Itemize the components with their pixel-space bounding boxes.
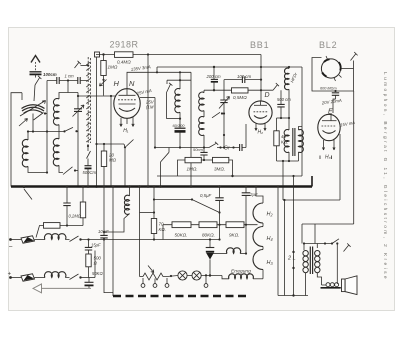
speaker cone bbox=[342, 276, 358, 295]
svg-text:2918R: 2918R bbox=[110, 40, 139, 50]
wire y224 bbox=[302, 223, 354, 225]
svg-text:9KΩ.: 9KΩ. bbox=[229, 232, 239, 237]
resistor 3M (row) bbox=[201, 157, 233, 177]
Erregung field coil bbox=[222, 269, 263, 279]
wire x340 (tube E right) bbox=[339, 134, 341, 200]
capacitor 10uF bbox=[98, 187, 113, 293]
svg-text:200 cm: 200 cm bbox=[206, 74, 222, 79]
capacitor 100cm (antenna series) bbox=[30, 72, 57, 78]
svg-text:Lumophon, Bergrat G 11, Gleich: Lumophon, Bergrat G 11, Gleichstrom, 2 K… bbox=[382, 72, 388, 281]
resistor 0,5M (grid leak D) bbox=[204, 88, 262, 100]
tube D pins / heater H2 bbox=[255, 123, 266, 136]
fuse plug (minus) bbox=[11, 236, 46, 243]
wire grid line y96 bbox=[78, 95, 116, 97]
svg-text:–: – bbox=[8, 245, 13, 251]
svg-text:BL2: BL2 bbox=[319, 40, 337, 50]
variable capacitor VC2 (trimmer) bbox=[73, 93, 85, 187]
switch row above transformer bbox=[303, 239, 339, 245]
fuse plug (plus) bbox=[11, 274, 46, 281]
variable capacitor VC3 bbox=[219, 80, 230, 149]
gang link (hatched band) bbox=[86, 57, 90, 144]
wire D cathode x246 bbox=[245, 124, 247, 148]
node wire y131 bbox=[28, 130, 64, 132]
wire y212.5 bbox=[140, 212, 155, 214]
switch (minus) bbox=[65, 236, 78, 242]
resistor 20M (vertical) bbox=[95, 143, 124, 187]
switch (band) bbox=[34, 113, 44, 121]
capacitor (Gr input) bbox=[240, 144, 242, 151]
svg-text:MΩ: MΩ bbox=[109, 158, 117, 163]
wire minus rail y239.5 bbox=[81, 239, 176, 241]
BL2 socket box bbox=[312, 58, 354, 93]
bus end riser x312 bbox=[311, 176, 313, 187]
resistor 40K (vertical) bbox=[274, 118, 289, 161]
svg-text:H₂: H₂ bbox=[258, 130, 264, 136]
svg-text:0,5μF: 0,5μF bbox=[200, 193, 212, 198]
coil L3 bbox=[53, 139, 63, 173]
svg-text:2 L: 2 L bbox=[287, 256, 296, 262]
terminal plus bbox=[9, 276, 12, 279]
svg-text:1 cm: 1 cm bbox=[65, 74, 75, 79]
wire x337 to voice coil bbox=[336, 244, 338, 285]
wire Gr row y147.5 bbox=[155, 147, 246, 149]
wire transformer bottom bracket bbox=[277, 160, 299, 162]
switch below bus (mains) bbox=[24, 189, 32, 200]
wire x292.5 (field feed) bbox=[293, 176, 295, 296]
transformer T1 (interstage) bbox=[284, 127, 303, 162]
svg-text:80KΩ.: 80KΩ. bbox=[202, 232, 215, 237]
wire grid leak x111 bbox=[110, 96, 112, 187]
tube V1 pins / heater H1 bbox=[120, 117, 134, 135]
svg-text:H₂: H₂ bbox=[267, 212, 274, 218]
wire screen x148 bbox=[147, 55, 149, 187]
svg-text:1MΩ: 1MΩ bbox=[108, 65, 118, 70]
svg-text:3MΩ.: 3MΩ. bbox=[214, 167, 225, 172]
resistor 1M (vertical) bbox=[100, 55, 118, 96]
coil L4 (anode coil) bbox=[175, 80, 180, 118]
wire x278 bbox=[277, 187, 279, 296]
capacitor 100cm (coupling) bbox=[224, 74, 262, 83]
switch (antenna) bbox=[35, 76, 41, 85]
tube D bbox=[249, 55, 272, 125]
svg-text:Gr: Gr bbox=[224, 146, 230, 152]
wire x113 bbox=[112, 187, 114, 297]
resistor 0,4M bbox=[115, 52, 134, 58]
wire y81 with capacitor 1cm bbox=[47, 74, 88, 93]
switch Gr bbox=[209, 142, 218, 148]
dial lamp 2 bbox=[187, 271, 222, 280]
svg-text:BB1: BB1 bbox=[250, 40, 269, 50]
bus (thick earth line) bbox=[11, 185, 312, 187]
switch (antenna selector) bbox=[75, 61, 81, 68]
tube V1 H N bbox=[114, 89, 140, 119]
svg-text:H₄: H₄ bbox=[267, 236, 273, 242]
wire vertical x47 bbox=[46, 81, 48, 173]
resistor 0,2M (vertical) bbox=[69, 187, 86, 226]
terminal minus bbox=[9, 238, 12, 241]
resistor 50K bbox=[172, 222, 191, 228]
switch (mid left) bbox=[124, 144, 125, 147]
wire x191 down bbox=[190, 72, 192, 186]
choke (minus lead) bbox=[45, 234, 66, 240]
svg-text:50cm: 50cm bbox=[193, 147, 203, 152]
arrow (mains return) bbox=[33, 284, 91, 293]
voice coil bbox=[321, 283, 342, 288]
capacitor 500cm (to chassis) bbox=[83, 144, 97, 187]
terminal circles bbox=[141, 277, 208, 287]
svg-text:Erregung: Erregung bbox=[231, 269, 251, 275]
svg-text:N: N bbox=[129, 79, 135, 88]
antenna A1 bbox=[31, 56, 40, 72]
wire left frame bbox=[11, 93, 22, 187]
wire x139.5 bbox=[139, 187, 141, 277]
anode load loop: wire y80 bbox=[167, 79, 191, 81]
capacitor (below bus x67) bbox=[63, 187, 70, 226]
wire y200 bbox=[283, 199, 340, 201]
capacitor 15uF bbox=[85, 240, 101, 255]
wire below VC1 bbox=[32, 114, 34, 132]
svg-text:(1M: (1M bbox=[146, 105, 154, 110]
wire loop bottom bbox=[167, 118, 181, 120]
switch (coil tap) bbox=[212, 112, 220, 118]
capacitor 2uF bbox=[242, 187, 258, 254]
capacitor 500cm (detector) bbox=[277, 90, 291, 118]
coil L5 (BB1 grid coil upper) bbox=[199, 90, 204, 117]
resistor row wire y225.3 bbox=[163, 224, 258, 226]
wire x302 (y67 drop) bbox=[301, 67, 303, 176]
svg-text:D: D bbox=[265, 92, 270, 99]
svg-text:H₁: H₁ bbox=[123, 128, 129, 134]
switch mid bbox=[161, 152, 170, 162]
svg-text:500Cm: 500Cm bbox=[83, 170, 97, 175]
wire plate y72.3 bbox=[127, 72, 191, 88]
wire thin y176 bbox=[157, 175, 302, 177]
coil L1 bbox=[22, 140, 47, 173]
capacitor 0,5uF bbox=[200, 187, 224, 240]
wire x353.7 (B+ to output) bbox=[353, 91, 355, 224]
svg-text:+: + bbox=[8, 272, 12, 278]
resistor 9K bbox=[226, 222, 244, 228]
diode (metal rectifier) bbox=[206, 238, 215, 275]
chassis dashed line bbox=[113, 295, 246, 297]
wire x315 down to switch row bbox=[314, 224, 316, 244]
switch (wave change) bbox=[63, 167, 73, 175]
resistor 1M (row) bbox=[178, 157, 202, 176]
svg-text:600 MΩm: 600 MΩm bbox=[320, 87, 337, 91]
coil (vertical, pickup) bbox=[103, 187, 130, 234]
resistor 500 (vertical) bbox=[86, 254, 102, 278]
capacitor (BL2 out) bbox=[332, 93, 339, 113]
dial lamp 1 bbox=[178, 271, 187, 280]
output transformer T2 bbox=[303, 244, 322, 296]
coil L2 bbox=[53, 93, 78, 140]
wire B+ top y54.5 bbox=[96, 54, 261, 56]
electrolytic 60/100 bbox=[173, 119, 186, 148]
wire y67 long bbox=[157, 66, 302, 68]
resistor 70K (vertical) bbox=[151, 187, 166, 240]
pin (speaker plug) bbox=[344, 243, 351, 251]
switch (D plate) bbox=[261, 83, 279, 90]
svg-text:KΩ.: KΩ. bbox=[159, 227, 167, 232]
coil (smoothing, horizontal) bbox=[213, 248, 247, 255]
svg-text:50KΩ.: 50KΩ. bbox=[175, 232, 188, 237]
capacitor (output filter) bbox=[85, 251, 96, 289]
svg-text:100cm: 100cm bbox=[43, 72, 57, 77]
wire y118 bbox=[277, 117, 290, 119]
resistor 80K bbox=[199, 222, 217, 228]
svg-text:50KΩ: 50KΩ bbox=[92, 271, 103, 276]
rectifier BL2 (top view) bbox=[321, 56, 341, 81]
variable capacitor VC1 (crossed arcs) bbox=[20, 101, 46, 117]
svg-text:0,2MΩ: 0,2MΩ bbox=[69, 214, 82, 219]
svg-text:1MΩ.: 1MΩ. bbox=[187, 167, 198, 172]
choke (plus lead) bbox=[45, 272, 66, 278]
tube E pins / heater H3 bbox=[320, 140, 335, 161]
bus junction dots bbox=[66, 185, 69, 188]
switch (plus) bbox=[65, 274, 78, 280]
svg-text:60/100: 60/100 bbox=[173, 123, 186, 128]
potentiometer (zigzag) bbox=[140, 266, 179, 280]
svg-text:0,5MΩ: 0,5MΩ bbox=[233, 95, 247, 100]
wire y199.5 (sloping feed) bbox=[154, 200, 220, 213]
wire y295 bottom bbox=[278, 295, 308, 297]
svg-text:H: H bbox=[114, 79, 120, 88]
wire antenna to tuning cap bbox=[34, 85, 35, 101]
svg-text:H₃: H₃ bbox=[325, 155, 331, 161]
wire anode stub right bbox=[140, 97, 155, 99]
capacitor 50cm bbox=[193, 147, 208, 161]
tube E bbox=[318, 114, 340, 140]
trimmer arrow bbox=[19, 119, 28, 127]
svg-text:H₃: H₃ bbox=[267, 260, 274, 266]
svg-text:0,4MΩ: 0,4MΩ bbox=[117, 60, 131, 65]
resistor (series, horizontal) bbox=[36, 223, 83, 238]
coil L6 (BB1 grid coil lower) bbox=[199, 116, 204, 147]
wire x283 down bbox=[282, 161, 284, 200]
switch in loop bbox=[167, 83, 173, 93]
choke HF Dr bbox=[285, 67, 299, 130]
capacitor 200cm bbox=[206, 67, 222, 91]
pin (mains) bbox=[351, 52, 358, 61]
svg-text:15μF: 15μF bbox=[91, 243, 101, 248]
heater dropper H2 H4 H3 (humps) bbox=[253, 187, 273, 279]
